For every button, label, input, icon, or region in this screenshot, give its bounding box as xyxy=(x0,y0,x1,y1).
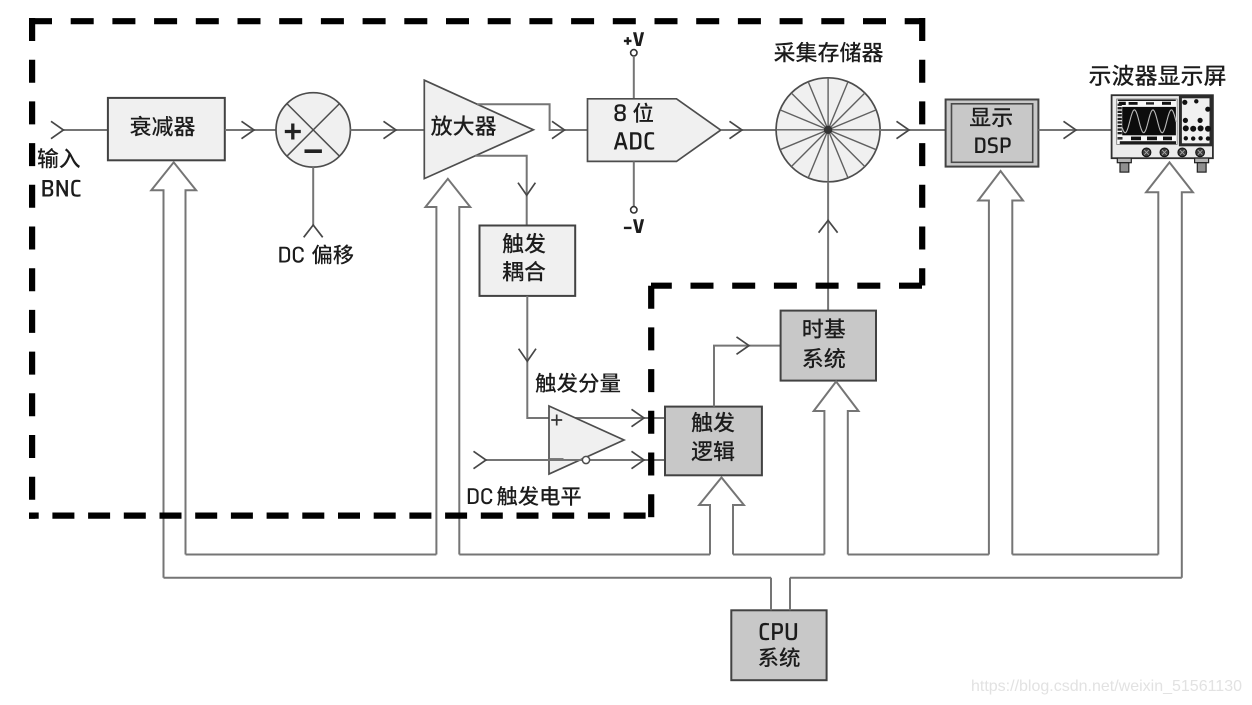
trigger coupling box 触发耦合 xyxy=(480,226,576,296)
wire: wheel to display DSP xyxy=(880,129,946,131)
ADC supply −V xyxy=(633,161,635,206)
svg-text:https://blog.csdn.net/weixin_5: https://blog.csdn.net/weixin_51561130 xyxy=(971,678,1242,695)
control bus arrow to attenuator xyxy=(151,162,196,577)
arrowhead down xyxy=(519,349,536,362)
arrowhead into trigger logic lower xyxy=(632,451,645,468)
label 输入 BNC xyxy=(38,148,80,168)
oscilloscope display icon xyxy=(1112,95,1213,158)
bus segment xyxy=(733,554,824,556)
input arrowhead xyxy=(51,121,63,138)
dashed boundary: analog acquisition section xyxy=(29,18,922,24)
control bus arrow to amplifier xyxy=(425,179,470,555)
label 触发分量 xyxy=(536,373,621,393)
comparator input arrowhead xyxy=(474,451,487,468)
arrowhead into trigger logic upper xyxy=(632,409,645,426)
wire: amplifier output to ADC xyxy=(477,104,588,130)
comparator minus xyxy=(550,458,564,460)
arrowhead xyxy=(384,121,397,138)
trigger logic box 触发逻辑 xyxy=(665,407,762,476)
control bus arrow to trigger logic xyxy=(699,478,744,555)
arrowhead xyxy=(242,121,255,138)
bus segment xyxy=(186,554,437,556)
wire: summer to amplifier xyxy=(350,129,424,131)
wire: trigger logic to time base xyxy=(714,346,781,407)
wire: trigger coupling to comparator + input xyxy=(527,296,665,418)
bus bottom edge right xyxy=(790,577,1182,579)
bus stub to CPU right xyxy=(789,578,791,611)
wire: attenuator to summer xyxy=(225,129,276,131)
bus segment xyxy=(1012,554,1158,556)
wire: input to attenuator xyxy=(63,129,108,131)
arrowhead xyxy=(730,121,743,138)
wire: ADC to acquisition memory xyxy=(721,129,776,131)
wire: DSP to oscilloscope xyxy=(1038,129,1112,131)
label DC 触发电平 xyxy=(468,488,493,504)
control bus arrow to time base xyxy=(814,382,859,555)
arrowhead xyxy=(552,121,565,138)
attenuator box 衰减器 xyxy=(108,98,225,160)
arrowhead xyxy=(737,337,750,354)
arrowhead down xyxy=(518,183,535,196)
bus segment xyxy=(459,554,710,556)
summer minus sign xyxy=(305,149,322,153)
wire: DC offset stub xyxy=(312,167,314,225)
summer plus sign xyxy=(285,124,301,140)
bus stub to CPU left xyxy=(770,578,772,611)
comparator output bubble xyxy=(582,456,589,463)
time base box 时基系统 xyxy=(781,311,876,381)
arrowhead xyxy=(1064,121,1077,138)
wire: amplifier to trigger coupling xyxy=(475,156,527,226)
CPU box CPU 系统 xyxy=(731,610,826,680)
label 示波器显示屏 xyxy=(1089,65,1225,86)
arrowhead xyxy=(897,121,910,138)
acquisition memory wheel xyxy=(776,78,880,182)
summer circle (DC offset) xyxy=(276,93,350,167)
bus segment xyxy=(848,554,989,556)
arrowhead up xyxy=(819,220,838,232)
control bus arrow to oscilloscope xyxy=(1146,162,1193,577)
comparator plus xyxy=(551,415,562,426)
label 采集存储器 xyxy=(774,42,883,63)
amplifier 放大器 xyxy=(424,80,533,178)
trigger comparator xyxy=(549,406,624,474)
label DC 偏移 xyxy=(279,247,304,263)
ADC supply +V xyxy=(624,32,644,46)
control bus arrow to display DSP xyxy=(978,171,1023,555)
bus bottom edge left xyxy=(164,577,772,579)
wire: wheel to time base xyxy=(827,182,829,311)
DC offset entry arrowhead xyxy=(304,225,323,237)
wire: DC trigger level to comparator − input xyxy=(486,459,665,461)
ADC pentagon 8位ADC xyxy=(588,99,721,162)
display DSP box xyxy=(946,100,1039,167)
